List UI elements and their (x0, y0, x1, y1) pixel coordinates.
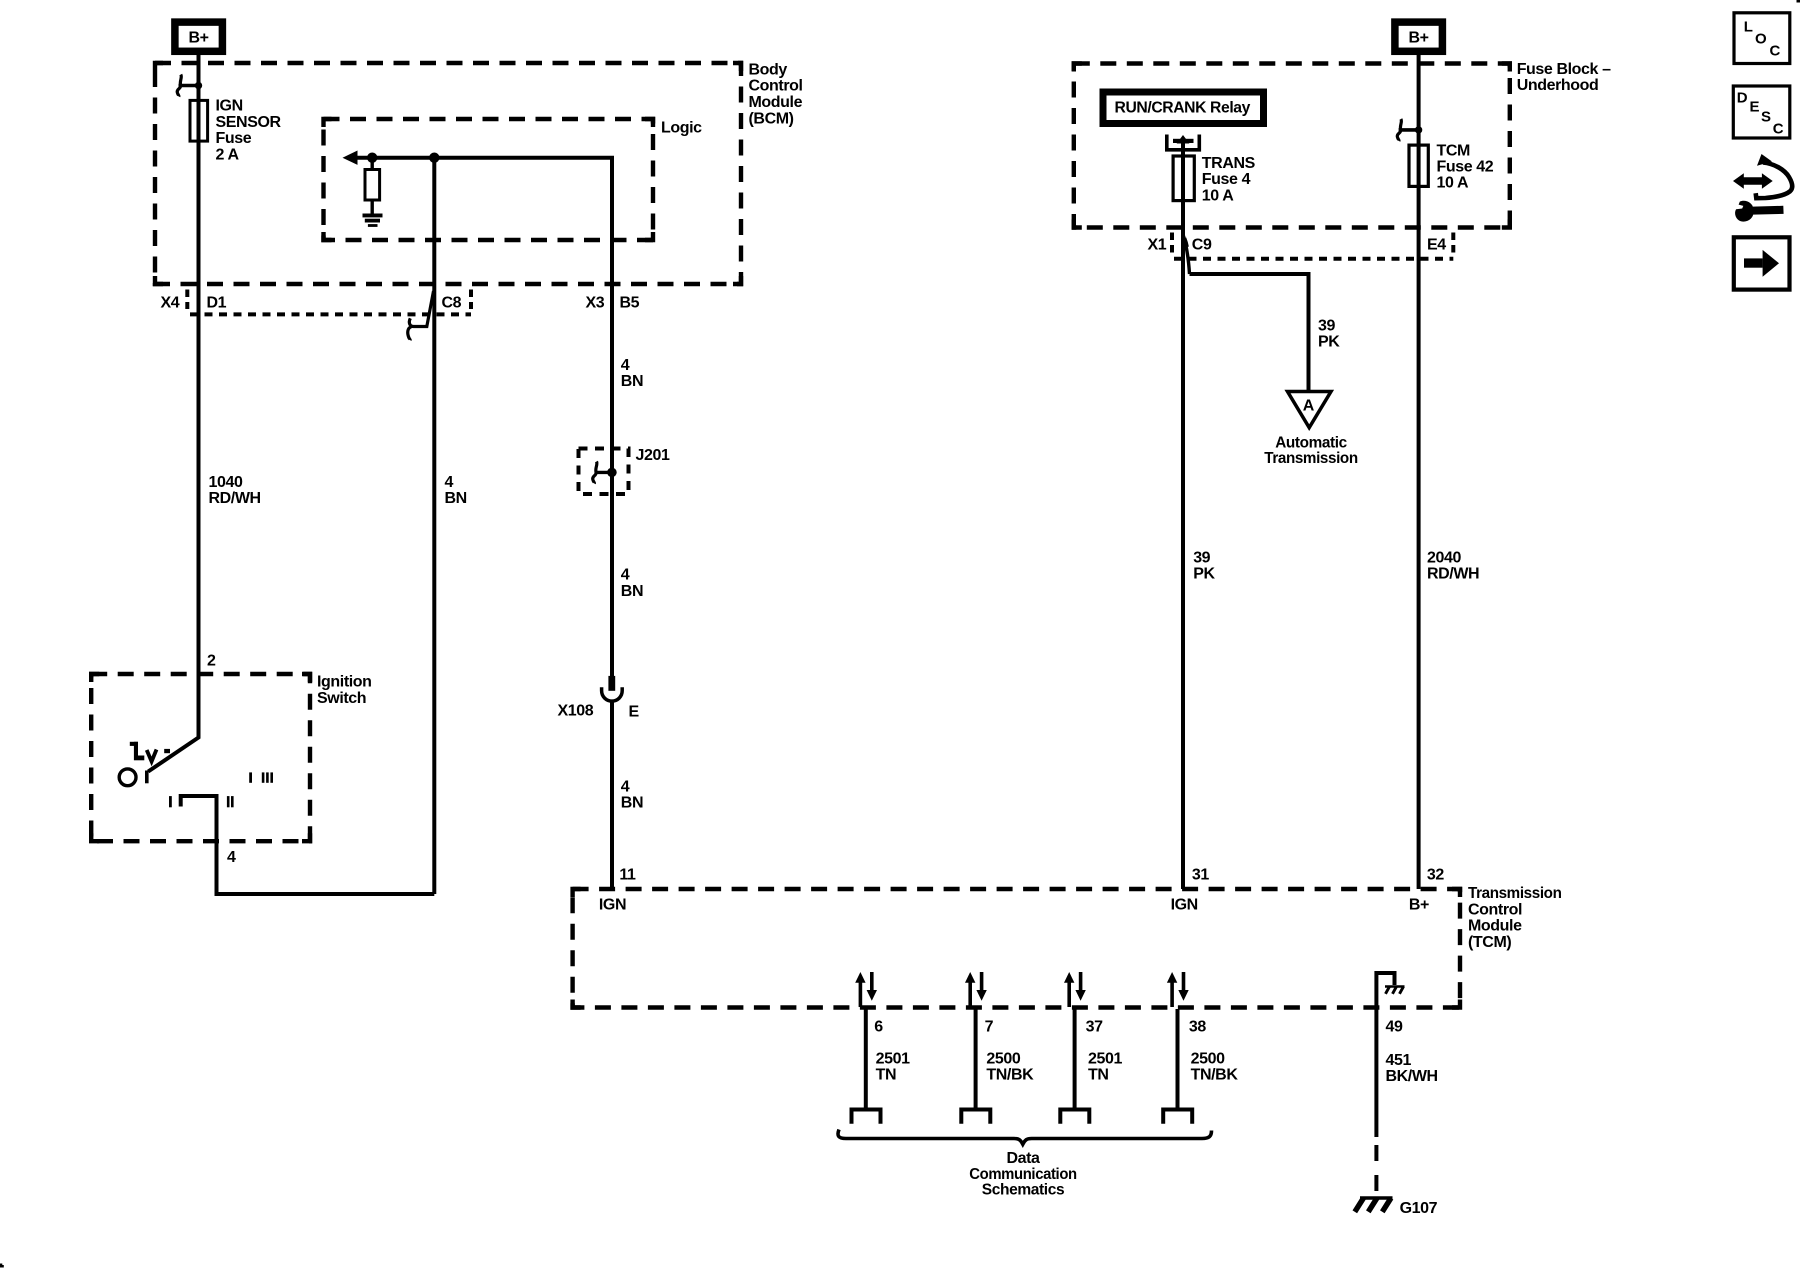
RUN/CRANK Relay box (1103, 92, 1264, 124)
wire labels 2501 TN / 2500 TN/BK (876, 1050, 1239, 1083)
svg-text:B+: B+ (189, 30, 209, 47)
svg-text:E4: E4 (1427, 237, 1446, 254)
in-line connector X108 pin E (602, 676, 623, 701)
label 4 BN (upper segment) (621, 357, 643, 390)
svg-text:D1: D1 (207, 295, 227, 312)
svg-text:2 A: 2 A (216, 146, 240, 163)
svg-text:TCM: TCM (1437, 142, 1471, 159)
svg-text:Ignition: Ignition (317, 674, 372, 691)
svg-text:4: 4 (227, 849, 236, 866)
svg-text:G107: G107 (1400, 1200, 1438, 1217)
fuse IGN SENSOR 2A (190, 100, 208, 141)
label TCM Fuse 42 10 A (1437, 142, 1494, 191)
pin number labels 6 7 37 38 49 (874, 1019, 1403, 1036)
svg-text:RD/WH: RD/WH (1427, 566, 1479, 583)
logic internal wire with left arrowhead (343, 151, 613, 890)
label 451 BK/WH (1386, 1052, 1438, 1085)
svg-text:E: E (1750, 99, 1760, 116)
chassis ground symbol (internal) (1385, 987, 1405, 994)
svg-text:7: 7 (985, 1019, 994, 1036)
svg-text:TN/BK: TN/BK (1191, 1067, 1239, 1084)
ground G107 chassis symbol (1355, 1198, 1393, 1212)
svg-text:SENSOR: SENSOR (216, 114, 282, 131)
svg-text:BN: BN (445, 490, 467, 507)
svg-text:39: 39 (1318, 317, 1335, 334)
svg-text:TN: TN (876, 1067, 897, 1084)
svg-text:2500: 2500 (986, 1050, 1020, 1067)
svg-text:49: 49 (1386, 1019, 1403, 1036)
label 39 PK (branch) (1318, 317, 1340, 350)
fuse block connector row X1/C9 E4 dotted (1172, 233, 1453, 259)
label Transmission Control Module (TCM) (1468, 885, 1562, 951)
svg-text:B+: B+ (1409, 30, 1429, 47)
wire 2500 TN/BK pin 38 (1176, 1009, 1180, 1108)
pin names IGN IGN B+ (599, 896, 1429, 913)
svg-text:1040: 1040 (209, 474, 243, 491)
Logic dashed box (324, 119, 654, 240)
svg-text:Fuse: Fuse (216, 130, 252, 147)
svg-text:Communication: Communication (969, 1166, 1077, 1183)
svg-text:RD/WH: RD/WH (209, 490, 261, 507)
terminal pin 37 (1060, 1110, 1089, 1124)
svg-text:2501: 2501 (876, 1050, 910, 1067)
dashed continuation to G107 (1374, 1145, 1378, 1196)
position label IV (rotated glyph) (130, 742, 170, 762)
wire: logic junction down through C8 to ignition switch return (432, 158, 436, 894)
serial data arrows pin 7 (965, 972, 987, 1007)
svg-text:C: C (1773, 121, 1784, 138)
serial data arrows pin 6 (855, 972, 877, 1007)
TCM internal ground lead pin 49 (1376, 973, 1394, 1008)
wire 2501 TN pin 6 (864, 1009, 868, 1108)
icon hotlink (double arrow, loop arrow, wrench) (1733, 154, 1792, 222)
svg-text:BN: BN (621, 795, 643, 812)
svg-text:Automatic: Automatic (1275, 434, 1347, 451)
label 2040 RD/WH (1427, 549, 1479, 582)
svg-text:C9: C9 (1192, 237, 1212, 254)
svg-text:(TCM): (TCM) (1468, 934, 1511, 951)
svg-text:TN/BK: TN/BK (986, 1067, 1034, 1084)
svg-text:451: 451 (1386, 1052, 1412, 1069)
terminal pin 7 (961, 1110, 990, 1124)
svg-text:E: E (629, 704, 640, 721)
svg-text:6: 6 (874, 1019, 883, 1036)
resistor (pull-up/down in logic) (365, 158, 380, 214)
page artifact bottom-left (0, 1264, 4, 1268)
svg-text:Fuse Block –: Fuse Block – (1517, 61, 1611, 78)
icon button next (right arrow) (1734, 237, 1790, 289)
svg-text:2: 2 (207, 652, 216, 669)
svg-text:X108: X108 (558, 703, 594, 720)
label Data Communication Schematics (969, 1150, 1077, 1199)
label Fuse Block - Underhood (1517, 61, 1611, 94)
svg-text:2500: 2500 (1191, 1050, 1225, 1067)
wire 451 BK/WH pin 49 (1374, 1009, 1378, 1137)
battery feed terminal B+ (left) (175, 22, 223, 51)
pin labels 31 32 (1192, 866, 1444, 883)
svg-text:Schematics: Schematics (982, 1182, 1065, 1199)
serial data arrows pin 37 (1064, 972, 1086, 1007)
pin 4 contact and wire to C8 riser (181, 796, 435, 894)
label Automatic Transmission (1264, 434, 1358, 467)
wire 2500 TN/BK pin 7 (974, 1009, 978, 1108)
svg-text:11: 11 (619, 866, 636, 883)
C9 connector clip squiggle and branch curve (1184, 236, 1190, 274)
svg-text:TN: TN (1088, 1067, 1109, 1084)
svg-text:C: C (1770, 43, 1781, 60)
svg-text:Module: Module (749, 94, 803, 111)
battery feed terminal B+ (right) (1395, 22, 1443, 51)
svg-text:BK/WH: BK/WH (1386, 1068, 1438, 1085)
junction node (resistor tap) (367, 153, 377, 163)
terminal pin 6 (852, 1110, 881, 1124)
svg-text:39: 39 (1193, 549, 1210, 566)
wire branch to automatic transmission (1190, 274, 1309, 391)
svg-text:Transmission: Transmission (1468, 885, 1562, 902)
svg-text:38: 38 (1189, 1019, 1206, 1036)
svg-text:Switch: Switch (317, 690, 366, 707)
Ignition Switch dashed box (91, 674, 310, 841)
splice J201 dashed box (579, 449, 629, 495)
wire 2501 TN pin 37 (1073, 1009, 1077, 1108)
off-page triangle A (Automatic Transmission) (1288, 392, 1332, 428)
wire 39 PK main run to TCM pin 31 (1181, 228, 1185, 889)
ground symbol (logic) (363, 214, 383, 227)
label Ignition Switch (317, 674, 372, 707)
label 4 BN (lower segment) (621, 778, 643, 811)
svg-text:Logic: Logic (661, 120, 702, 137)
labels X108 E (558, 703, 640, 721)
Fuse Block Underhood dashed box (1074, 64, 1510, 228)
ignition switch pivot circle (119, 769, 136, 786)
position marks I III (249, 772, 273, 782)
svg-text:4: 4 (445, 474, 454, 491)
svg-text:A: A (1303, 398, 1315, 415)
svg-text:2040: 2040 (1427, 549, 1461, 566)
BCM bottom connector row X4/D1 C8 dotted (187, 290, 471, 315)
terminal pin 38 (1163, 1110, 1192, 1124)
svg-text:D: D (1737, 89, 1748, 106)
svg-text:BN: BN (621, 583, 643, 600)
svg-text:S: S (1761, 109, 1771, 126)
svg-text:BN: BN (621, 373, 643, 390)
svg-text:4: 4 (621, 357, 630, 374)
fuse TCM Fuse 42 10A (1409, 145, 1428, 186)
wire 2040 RD/WH: B+ through TCM fuse down to TCM pin 32 (1417, 54, 1421, 889)
svg-text:RUN/CRANK Relay: RUN/CRANK Relay (1115, 99, 1251, 116)
svg-text:X4: X4 (161, 295, 180, 312)
label 39 PK (main) (1193, 549, 1215, 582)
svg-text:TRANS: TRANS (1202, 155, 1256, 172)
svg-text:32: 32 (1427, 866, 1444, 883)
svg-text:4: 4 (621, 567, 630, 584)
fuse TRANS Fuse 4 10A (1173, 143, 1194, 228)
svg-text:Fuse 4: Fuse 4 (1202, 171, 1251, 188)
svg-text:37: 37 (1086, 1019, 1103, 1036)
svg-text:X1: X1 (1148, 237, 1167, 254)
fuse element hook at IGN SENSOR fuse (177, 75, 202, 97)
svg-text:Fuse 42: Fuse 42 (1437, 159, 1494, 176)
svg-text:10 A: 10 A (1202, 187, 1234, 204)
label 4 BN (middle segment) (621, 567, 643, 600)
svg-text:IGN: IGN (216, 98, 243, 115)
connector labels X4 D1 C8 X3 B5 (161, 295, 640, 312)
label 1040 RD/WH (209, 474, 261, 507)
svg-text:PK: PK (1318, 334, 1340, 351)
wire 1040 RD/WH: B+ down to ignition switch pin 2 (148, 54, 198, 772)
svg-text:B5: B5 (620, 295, 640, 312)
svg-text:Module: Module (1468, 918, 1522, 935)
svg-text:(BCM): (BCM) (749, 111, 794, 128)
svg-text:Control: Control (1468, 901, 1522, 918)
svg-text:Transmission: Transmission (1264, 450, 1358, 467)
svg-text:PK: PK (1193, 566, 1215, 583)
svg-text:2501: 2501 (1088, 1050, 1122, 1067)
position marks II (227, 796, 234, 807)
svg-text:IGN: IGN (1171, 896, 1198, 913)
label 4 BN (ignition return wire) (445, 474, 467, 507)
junction node (wire from ignition switch) (429, 153, 439, 163)
page artifact top-right (1797, 0, 1800, 3)
icon button DESC (1733, 86, 1790, 138)
svg-text:J201: J201 (636, 447, 670, 464)
svg-text:C8: C8 (442, 295, 462, 312)
label Body Control Module (BCM) (749, 61, 803, 127)
svg-text:Data: Data (1006, 1150, 1040, 1167)
svg-text:B+: B+ (1409, 896, 1429, 913)
serial data arrows pin 38 (1167, 972, 1189, 1007)
svg-text:Underhood: Underhood (1517, 77, 1599, 94)
C8 connector clip squiggle (408, 291, 434, 340)
splice J201 hook and node (593, 462, 617, 484)
svg-text:31: 31 (1192, 866, 1209, 883)
icon button LOC (1734, 13, 1790, 64)
svg-text:IGN: IGN (599, 896, 626, 913)
svg-text:X3: X3 (586, 295, 605, 312)
svg-text:Body: Body (749, 61, 788, 78)
svg-text:Control: Control (749, 78, 803, 95)
fuse element hook at TCM fuse (1397, 119, 1422, 141)
svg-text:L: L (1744, 19, 1753, 36)
relay switched output symbol (bracket with arrow) (1167, 135, 1200, 157)
connector labels X1 C9 E4 (1148, 237, 1447, 254)
ignition switch movable arm end tick (145, 771, 149, 784)
Body Control Module (BCM) dashed box (155, 63, 741, 284)
position mark I (pin 4 side) (169, 796, 172, 807)
svg-text:4: 4 (621, 778, 630, 795)
svg-text:10 A: 10 A (1437, 175, 1469, 192)
label TRANS Fuse 4 10 A (1202, 155, 1256, 204)
Transmission Control Module (TCM) dashed box (573, 889, 1460, 1008)
brace grouping data wires (838, 1130, 1212, 1145)
label IGN SENSOR Fuse 2 A (216, 98, 282, 164)
svg-text:O: O (1755, 31, 1767, 48)
